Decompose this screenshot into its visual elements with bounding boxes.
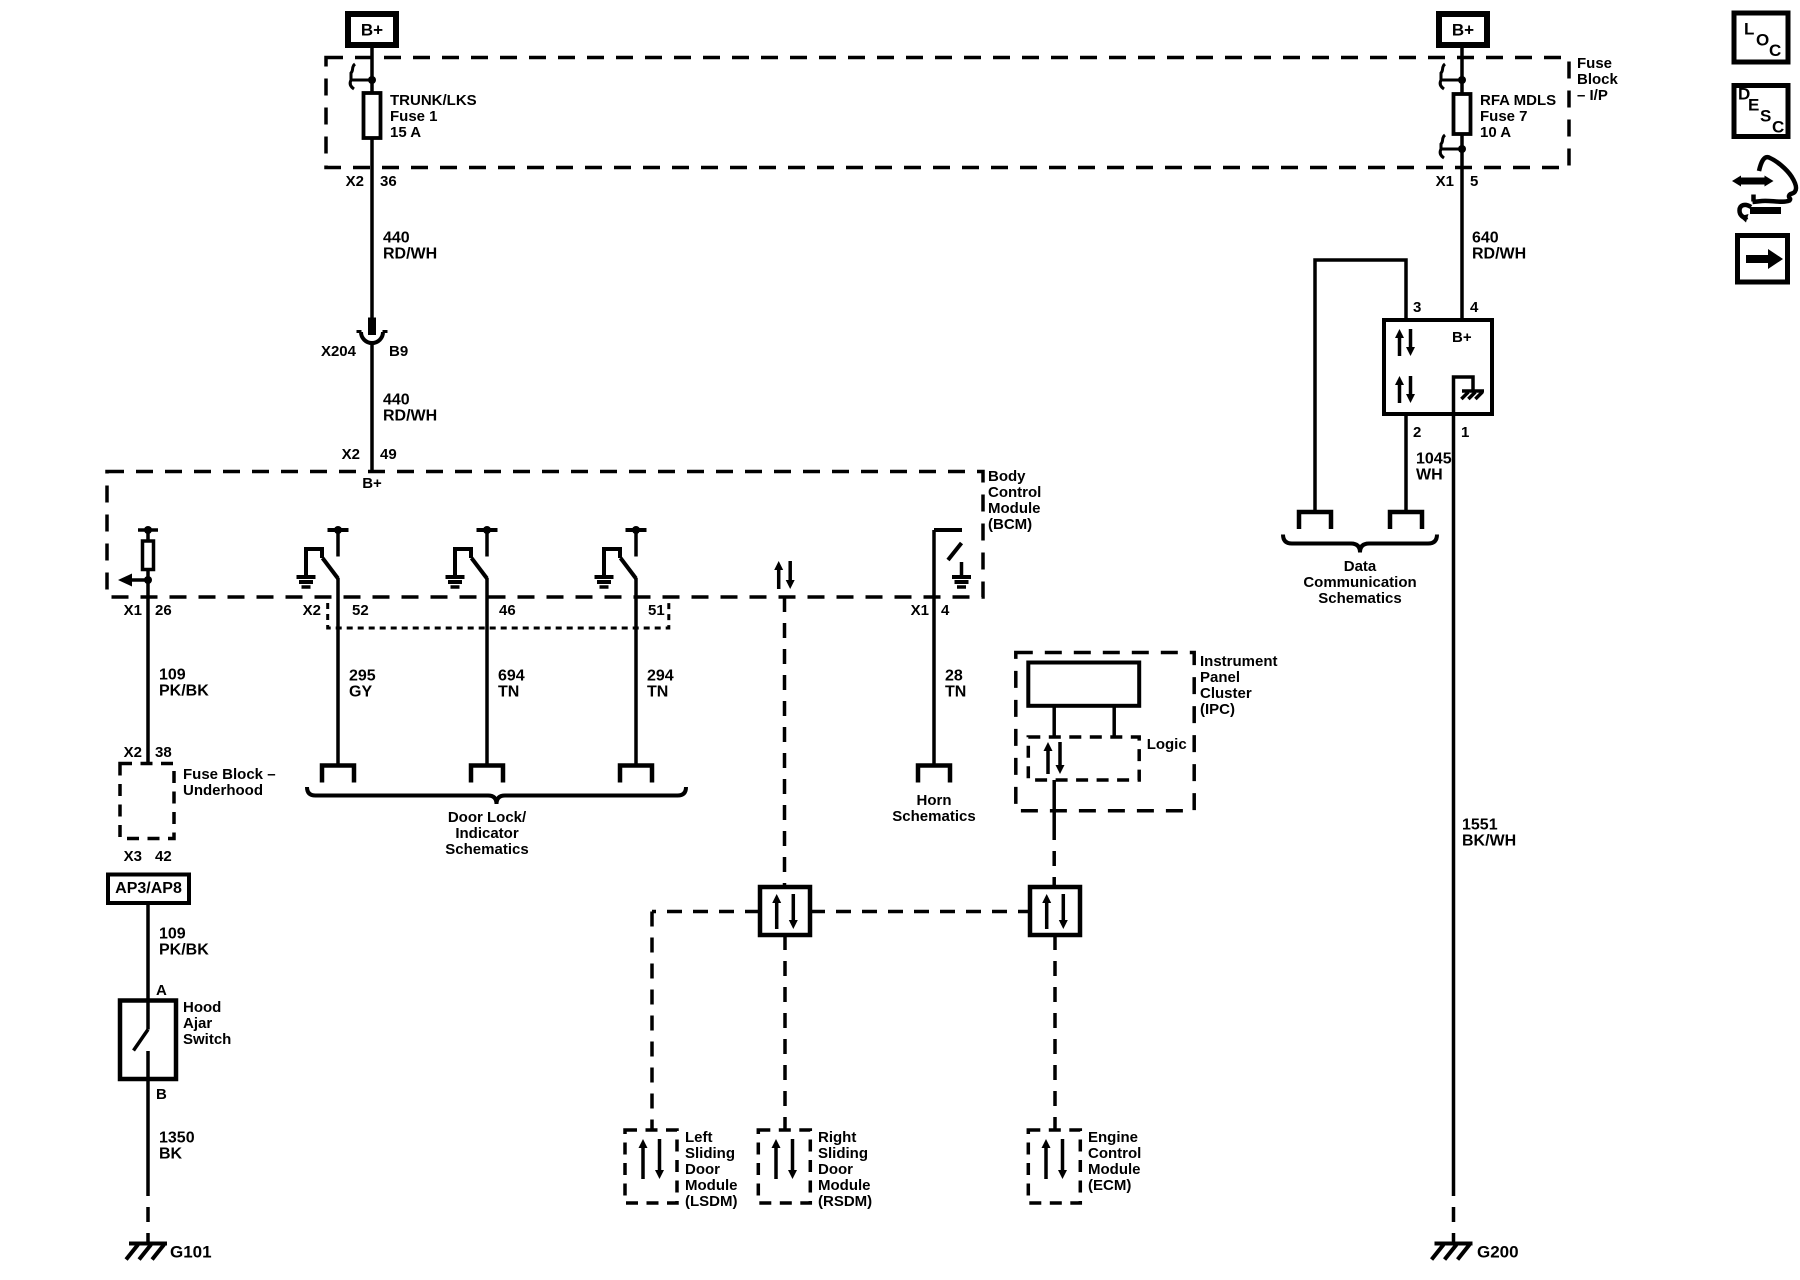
- RCDLR lock arrows: [1398, 337, 1402, 356]
- serial data connector square (ECM bus): [1030, 887, 1080, 935]
- svg-text:Communication: Communication: [1303, 574, 1416, 591]
- svg-text:TN: TN: [945, 684, 966, 701]
- svg-text:Module: Module: [818, 1177, 871, 1194]
- svg-text:1: 1: [1461, 424, 1469, 441]
- Body Control Module BCM dashed box: [107, 472, 983, 598]
- svg-text:G200: G200: [1477, 1242, 1519, 1261]
- Engine Control Module dashed box: [1028, 1130, 1080, 1203]
- wire 440 RD/WH lower segment: [370, 342, 374, 471]
- svg-text:Schematics: Schematics: [1318, 590, 1401, 607]
- svg-text:(IPC): (IPC): [1200, 701, 1235, 718]
- fuse terminal clip above Fuse 7: [1442, 79, 1462, 82]
- svg-text:Schematics: Schematics: [892, 808, 975, 825]
- svg-text:X1: X1: [911, 602, 929, 619]
- wire Fuse 7 to lower clip: [1460, 134, 1464, 168]
- wire Fuse 1 to X2-36: [370, 138, 374, 168]
- svg-text:B9: B9: [389, 343, 408, 360]
- svg-text:3: 3: [1413, 299, 1421, 316]
- dashed wire to G101: [146, 1181, 150, 1242]
- svg-text:B+: B+: [1452, 329, 1472, 346]
- wire 28 TN: [932, 597, 936, 765]
- svg-text:RD/WH: RD/WH: [383, 408, 437, 425]
- BCM door lock driver switch pin 46: [477, 528, 498, 532]
- svg-text:(BCM): (BCM): [988, 516, 1032, 533]
- Fuse Block - Underhood dashed box: [120, 764, 174, 839]
- svg-text:694: 694: [498, 668, 525, 685]
- wire BCM X1-26 to fuse block underhood: [146, 580, 150, 764]
- door lock terminal 295: [322, 766, 354, 783]
- svg-text:Ajar: Ajar: [183, 1015, 212, 1032]
- svg-text:O: O: [1756, 30, 1769, 49]
- dashed bus wire right: [810, 910, 1030, 914]
- dashed bus wire left: [652, 910, 760, 914]
- svg-text:Door: Door: [685, 1161, 720, 1178]
- icon LOC box: [1734, 13, 1788, 62]
- connector AP3/AP8 box: [108, 875, 189, 904]
- svg-text:Module: Module: [988, 500, 1041, 517]
- svg-text:42: 42: [155, 848, 172, 865]
- svg-text:B+: B+: [1452, 20, 1474, 39]
- svg-text:X1: X1: [124, 602, 142, 619]
- connector X2 dotted group box (pins 52-46-51): [328, 603, 669, 628]
- svg-text:640: 640: [1472, 230, 1499, 247]
- svg-text:52: 52: [352, 602, 369, 619]
- svg-text:X2: X2: [303, 602, 321, 619]
- svg-text:AP3/AP8: AP3/AP8: [115, 880, 182, 897]
- wire 1350 BK: [146, 1079, 150, 1181]
- svg-text:Hood: Hood: [183, 999, 221, 1016]
- svg-text:Sliding: Sliding: [818, 1145, 868, 1162]
- RCDLR unlock arrows: [1398, 384, 1402, 403]
- svg-text:X2: X2: [124, 744, 142, 761]
- svg-text:4: 4: [1470, 299, 1479, 316]
- svg-text:Block: Block: [1577, 71, 1619, 88]
- data terminal right: [1390, 512, 1422, 529]
- svg-text:A: A: [156, 982, 167, 999]
- fuse terminal clip below Fuse 7: [1442, 148, 1462, 151]
- svg-text:Left: Left: [685, 1129, 713, 1146]
- svg-text:Engine: Engine: [1088, 1129, 1138, 1146]
- fuse terminal clip above Fuse 1: [352, 79, 372, 82]
- data terminal left: [1299, 512, 1331, 529]
- dashed wire to LSDM: [650, 912, 654, 1131]
- svg-text:26: 26: [155, 602, 172, 619]
- dashed wire to RSDM: [783, 935, 787, 1130]
- svg-text:10 A: 10 A: [1480, 124, 1511, 141]
- Right Sliding Door Module dashed box: [758, 1130, 810, 1203]
- dashed wire to ECM: [1053, 935, 1057, 1130]
- svg-text:1350: 1350: [159, 1130, 195, 1147]
- svg-text:Module: Module: [1088, 1161, 1141, 1178]
- svg-text:L: L: [1744, 19, 1754, 38]
- svg-text:WH: WH: [1416, 467, 1443, 484]
- svg-text:109: 109: [159, 926, 186, 943]
- svg-text:Module: Module: [685, 1177, 738, 1194]
- svg-text:51: 51: [648, 602, 665, 619]
- svg-text:Logic: Logic: [1147, 736, 1187, 753]
- wire B+ right down to Fuse 7: [1460, 48, 1464, 95]
- svg-text:Indicator: Indicator: [455, 825, 519, 842]
- svg-text:15 A: 15 A: [390, 124, 421, 141]
- Logic dashed box: [1028, 737, 1139, 780]
- icon twisted arrow doodle: [1739, 178, 1766, 185]
- ground G101: [129, 1242, 167, 1246]
- fuse TRUNK/LKS Fuse 1 15A: [364, 93, 381, 138]
- svg-text:49: 49: [380, 446, 397, 463]
- svg-text:X2: X2: [346, 173, 364, 190]
- svg-text:Control: Control: [988, 484, 1041, 501]
- svg-text:294: 294: [647, 668, 674, 685]
- svg-text:X1: X1: [1436, 173, 1454, 190]
- svg-text:E: E: [1748, 95, 1759, 114]
- svg-text:1551: 1551: [1462, 817, 1498, 834]
- door lock terminal 294: [620, 766, 652, 783]
- svg-text:Horn: Horn: [917, 792, 952, 809]
- wire 109 PK/BK to hood ajar switch: [146, 903, 150, 1001]
- fuse RFA MDLS Fuse 7 10A: [1454, 94, 1471, 134]
- Fuse Block - I/P dashed box: [326, 58, 1569, 168]
- BCM horn relay driver switch pin X1-4: [934, 528, 962, 532]
- svg-text:38: 38: [155, 744, 172, 761]
- B+ battery feed symbol (right): [1439, 14, 1487, 45]
- svg-text:G101: G101: [170, 1242, 212, 1261]
- connector X204 pin B9: [368, 318, 376, 336]
- svg-text:Body: Body: [988, 468, 1026, 485]
- svg-text:TN: TN: [647, 684, 668, 701]
- IPC internal stub right: [1112, 706, 1116, 737]
- svg-text:Door: Door: [818, 1161, 853, 1178]
- svg-text:PK/BK: PK/BK: [159, 683, 209, 700]
- svg-text:TRUNK/LKS: TRUNK/LKS: [390, 92, 477, 109]
- IPC internal stub left: [1052, 706, 1056, 737]
- svg-text:PK/BK: PK/BK: [159, 942, 209, 959]
- RCDLR pin 3 loop wire: [1315, 260, 1406, 512]
- icon DESC box: [1734, 86, 1788, 137]
- svg-text:Cluster: Cluster: [1200, 685, 1252, 702]
- wire 640 RD/WH: [1460, 168, 1464, 320]
- IPC display block: [1028, 663, 1139, 706]
- svg-text:S: S: [1760, 106, 1771, 125]
- svg-text:(RSDM): (RSDM): [818, 1193, 872, 1210]
- svg-text:Fuse 7: Fuse 7: [1480, 108, 1528, 125]
- svg-text:GY: GY: [349, 684, 372, 701]
- svg-text:(LSDM): (LSDM): [685, 1193, 738, 1210]
- svg-text:X2: X2: [342, 446, 360, 463]
- logic serial arrows: [1046, 750, 1050, 774]
- svg-text:440: 440: [383, 392, 410, 409]
- svg-text:Fuse: Fuse: [1577, 55, 1612, 72]
- svg-text:4: 4: [941, 602, 950, 619]
- svg-text:C: C: [1769, 41, 1781, 60]
- brace door lock group: [307, 787, 686, 804]
- svg-text:Schematics: Schematics: [445, 841, 528, 858]
- svg-text:440: 440: [383, 230, 410, 247]
- svg-text:Switch: Switch: [183, 1031, 231, 1048]
- svg-text:RD/WH: RD/WH: [1472, 246, 1526, 263]
- wire RCDLR pin 2 1045 WH: [1404, 414, 1408, 512]
- wire 294 TN: [634, 578, 638, 765]
- svg-text:Fuse Block –: Fuse Block –: [183, 766, 276, 783]
- svg-text:BK: BK: [159, 1146, 183, 1163]
- icon right arrow box: [1738, 236, 1788, 283]
- RCDLR internal ground: [1454, 377, 1474, 413]
- svg-text:– I/P: – I/P: [1577, 87, 1608, 104]
- svg-text:X204: X204: [321, 343, 357, 360]
- wire B+ left down to Fuse 1: [370, 48, 374, 94]
- svg-text:Fuse 1: Fuse 1: [390, 108, 438, 125]
- Hood Ajar Switch box: [120, 1001, 176, 1080]
- svg-text:Instrument: Instrument: [1200, 653, 1278, 670]
- serial data connector square (body bus): [760, 887, 810, 935]
- svg-text:B+: B+: [362, 475, 382, 492]
- svg-text:TN: TN: [498, 684, 519, 701]
- wire 295 GY: [336, 578, 340, 765]
- ground G200: [1435, 1242, 1473, 1246]
- svg-text:Panel: Panel: [1200, 669, 1240, 686]
- dashed wire to G200: [1452, 1181, 1456, 1242]
- BCM serial data bidirectional arrows: [777, 569, 781, 589]
- wire 694 TN: [485, 578, 489, 765]
- svg-text:Sliding: Sliding: [685, 1145, 735, 1162]
- svg-text:28: 28: [945, 668, 963, 685]
- svg-text:Door Lock/: Door Lock/: [448, 809, 527, 826]
- svg-text:295: 295: [349, 668, 376, 685]
- BCM door lock driver switch pin 51: [626, 528, 647, 532]
- svg-text:2: 2: [1413, 424, 1421, 441]
- svg-text:5: 5: [1470, 173, 1478, 190]
- svg-text:RFA MDLS: RFA MDLS: [1480, 92, 1556, 109]
- Remote Control Door Lock Receiver box: [1384, 320, 1492, 414]
- svg-text:46: 46: [499, 602, 516, 619]
- wire IPC to serial connector: [1052, 780, 1056, 825]
- svg-text:X3: X3: [124, 848, 142, 865]
- svg-text:BK/WH: BK/WH: [1462, 833, 1516, 850]
- svg-text:1045: 1045: [1416, 451, 1452, 468]
- svg-text:Right: Right: [818, 1129, 856, 1146]
- svg-text:B: B: [156, 1086, 167, 1103]
- BCM driver output with resistor, pin X1-26: [138, 528, 158, 532]
- svg-text:RD/WH: RD/WH: [383, 246, 437, 263]
- hood ajar switch contacts: [146, 1001, 150, 1030]
- B+ battery feed symbol (left): [348, 14, 396, 45]
- dashed serial data wire from BCM: [783, 597, 787, 887]
- svg-text:Underhood: Underhood: [183, 782, 263, 799]
- Instrument Panel Cluster dashed box: [1016, 653, 1194, 811]
- BCM door lock driver switch pin X2-52: [328, 528, 349, 532]
- horn terminal: [918, 766, 950, 783]
- svg-text:109: 109: [159, 667, 186, 684]
- svg-text:Control: Control: [1088, 1145, 1141, 1162]
- door lock terminal 694: [471, 766, 503, 783]
- wire 440 RD/WH upper segment: [370, 168, 374, 322]
- wire RCDLR pin 1 1551 BK/WH: [1452, 414, 1456, 1181]
- brace data communication: [1283, 535, 1437, 553]
- svg-text:B+: B+: [361, 20, 383, 39]
- svg-text:C: C: [1772, 117, 1784, 136]
- Left Sliding Door Module dashed box: [625, 1130, 677, 1203]
- svg-text:Data: Data: [1344, 558, 1377, 575]
- svg-text:36: 36: [380, 173, 397, 190]
- svg-text:(ECM): (ECM): [1088, 1177, 1131, 1194]
